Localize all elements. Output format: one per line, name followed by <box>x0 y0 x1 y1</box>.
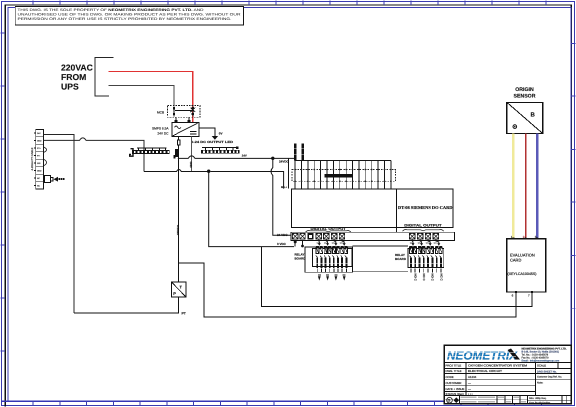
wire white break in contact bars (board2) <box>409 262 443 264</box>
svg-text:24VDC: 24VDC <box>279 160 290 164</box>
terminal strip output row <box>291 232 455 240</box>
wire MCB to SMPS stubs <box>176 117 189 122</box>
svg-text:GND: GND <box>37 170 42 173</box>
terminal block row TB2 (right) <box>201 146 247 157</box>
node eval pin ticks <box>512 238 538 293</box>
PLC U2 main box <box>291 189 453 228</box>
title block right column <box>536 362 572 384</box>
wire strip jumper arcs <box>44 147 47 166</box>
svg-text:SMPS 6.5A: SMPS 6.5A <box>152 126 169 130</box>
svg-text:DATE + ISSUE: DATE + ISSUE <box>446 387 465 391</box>
power supply SMPS U1 <box>152 122 199 136</box>
svg-text:NC C: NC C <box>422 274 426 282</box>
transmitter PT <box>172 282 187 315</box>
nodes DI strip contact dots <box>294 169 392 183</box>
svg-text:A1234: A1234 <box>468 375 477 379</box>
title block row values <box>468 364 528 396</box>
wire PLC L+ stub <box>288 158 290 188</box>
relay K6 <box>418 246 425 273</box>
svg-text:PROJ TITLE: PROJ TITLE <box>446 364 462 368</box>
node output pin labels group1 <box>317 242 344 245</box>
border black left edge extension <box>4 402 6 407</box>
wire link relay1 to relay2 <box>352 245 408 247</box>
svg-text:Q0.6: Q0.6 <box>426 242 430 245</box>
node strip label <box>325 174 353 177</box>
svg-text:0-24 DC OUTPUT LED: 0-24 DC OUTPUT LED <box>191 140 234 144</box>
svg-text:STATUS (Rev): STATUS (Rev) <box>446 392 464 396</box>
relay K2 <box>324 246 331 272</box>
sensor B1 origin sensor <box>507 87 543 134</box>
svg-text:220VAC: 220VAC <box>61 63 93 73</box>
svg-text:CUSTOMER: CUSTOMER <box>446 381 462 385</box>
svg-text:UNAUTHORISED USE OF THIS DWG.: UNAUTHORISED USE OF THIS DWG. OR MAKING … <box>18 13 242 17</box>
node junction dot relay strip 0V <box>294 240 297 243</box>
svg-text:—: — <box>468 381 471 385</box>
wire 220VAC neutral (dark) to MCB <box>109 85 175 105</box>
svg-text:GND: GND <box>189 162 193 168</box>
border tick marks bottom <box>33 401 541 406</box>
svg-text:OXYGEN CONCENTRATOR SYSTEM: OXYGEN CONCENTRATOR SYSTEM <box>468 364 528 368</box>
wire 24V rail from TB1 bar to PLC with hop over SMPS minus <box>178 156 295 159</box>
svg-text:Q0.3: Q0.3 <box>340 242 344 245</box>
terminal block row TB1 (left) <box>130 148 170 156</box>
wire 220VAC line (red) to MCB <box>109 72 193 123</box>
wire 0V rail to relay strip <box>261 246 294 248</box>
fuse F1 on PT supply wire <box>177 136 180 282</box>
wire PT bottom loop to field strip <box>74 297 179 313</box>
wires relay board1 output arrows <box>318 274 346 280</box>
wire stub circle2 to 0V rail <box>302 240 304 247</box>
wire 0V rail continue to PLC M <box>210 172 283 189</box>
node junction dot 24V rail <box>271 157 274 160</box>
wire divider stub to strip <box>395 228 397 233</box>
svg-text:DT-08 SIEMENS DO CARD: DT-08 SIEMENS DO CARD <box>398 205 453 210</box>
svg-text:Q0.7: Q0.7 <box>434 242 438 245</box>
relay K4 <box>341 246 348 272</box>
svg-text:ORIGIN: ORIGIN <box>515 87 534 93</box>
wires PLC outputs to relay coils group1 <box>319 239 344 244</box>
svg-text:24V: 24V <box>242 154 247 158</box>
wire terminal1 to left drop <box>44 135 74 313</box>
wire 0V to evaluation card pin7 <box>261 247 532 307</box>
relay K5 <box>410 246 417 273</box>
svg-text:MCB: MCB <box>157 110 164 114</box>
wire 0V drop to eval/relay rail <box>209 171 262 246</box>
wire white break in contact bars (board1) <box>314 262 352 264</box>
svg-text:THIS DWG. IS THE SOLE PROPERTY: THIS DWG. IS THE SOLE PROPERTY OF NEOMET… <box>18 8 205 12</box>
node 220VAC FROM UPS label <box>61 63 93 92</box>
border tick marks left <box>1 33 6 351</box>
wire SMPS to ground <box>199 128 215 136</box>
relay K3 <box>332 246 339 272</box>
relay K8 <box>435 246 442 273</box>
svg-text:NO C: NO C <box>431 274 435 282</box>
node relay board2 pin labels <box>414 274 444 282</box>
border tick marks right <box>571 43 576 308</box>
connector ribbon pin bar 2 <box>302 143 304 160</box>
title block bottom strip <box>444 396 571 405</box>
wires DI verticals with dots <box>295 161 391 190</box>
svg-text:• • •: • • • <box>468 392 473 396</box>
svg-text:DRG SHEET No.: DRG SHEET No. <box>537 370 557 373</box>
wire sensor red <box>525 134 527 239</box>
svg-text:NEOMETRIX: NEOMETRIX <box>447 351 518 363</box>
connector ribbon pin bar 1 <box>294 143 296 160</box>
border bottom blue heavy line <box>1 400 444 402</box>
notice box top-left <box>15 6 243 25</box>
svg-text:4-20mA PT CABLE: 4-20mA PT CABLE <box>31 147 34 170</box>
screw terminals group2 <box>409 233 439 239</box>
svg-text:ELECTRICAL CIRCUIT: ELECTRICAL CIRCUIT <box>468 369 502 373</box>
svg-text:UPS: UPS <box>61 82 79 92</box>
svg-text:SIG: SIG <box>37 162 41 165</box>
node output pin labels group2 <box>410 242 437 245</box>
relay board RB2 box <box>408 248 444 267</box>
svg-text:P: P <box>173 291 176 296</box>
relay board RB1 outer box <box>305 247 352 272</box>
svg-text:CODE: CODE <box>446 375 454 379</box>
svg-text:24 VDC: 24 VDC <box>277 233 288 237</box>
connector J1 field terminal strip (left) <box>34 129 44 189</box>
connector plug at terminal 7 <box>44 176 64 183</box>
terminal strip DI dashed box <box>292 170 395 182</box>
svg-text:B: B <box>531 112 536 119</box>
wire 0V rail (terminal2 net) with hop over PT wire <box>144 170 209 172</box>
svg-text:(XEYLCA10045S): (XEYLCA10045S) <box>508 272 537 276</box>
logo GO mark <box>447 397 459 403</box>
title block row labels <box>446 364 465 396</box>
svg-text:NEx. Utility Req.: NEx. Utility Req. <box>529 397 547 400</box>
svg-text:—: — <box>468 387 471 391</box>
title block company address <box>522 347 567 362</box>
title block row lines <box>444 362 571 395</box>
wires PLC outputs to relay coils group2 <box>412 239 439 244</box>
logo NEOMETRIX <box>447 349 520 363</box>
wire 24V vertical drop with hop over 0V rail <box>271 158 291 235</box>
svg-text:M L+: M L+ <box>281 186 287 189</box>
wire UPS source bracket <box>95 58 114 97</box>
ground symbol <box>212 136 218 140</box>
wire sensor yellow <box>512 134 515 239</box>
svg-text:BOARD: BOARD <box>395 257 407 261</box>
node junction dot 0V rail <box>207 170 210 173</box>
wire PT signal branch to evaluation card pin6 <box>179 263 517 317</box>
svg-text:NO C: NO C <box>414 274 418 282</box>
svg-text:BOARD: BOARD <box>295 256 307 260</box>
title block <box>444 345 571 404</box>
wire terminal2 rail with hop <box>44 138 144 172</box>
wire SMPS minus down to 0V rail <box>191 136 193 171</box>
svg-text:4-20mA: 4-20mA <box>176 225 180 235</box>
svg-text:PERMISSION OR ANY OTHER USE IS: PERMISSION OR ANY OTHER USE IS STRICTLY … <box>18 17 232 21</box>
PLC divider <box>395 189 397 228</box>
terminal block end stop (right bar) <box>174 149 178 159</box>
title block logo row divider <box>444 361 571 363</box>
svg-text:24V DC: 24V DC <box>157 131 169 135</box>
svg-text:G: G <box>448 399 451 403</box>
svg-text:Note:: Note: <box>537 382 543 385</box>
svg-text:CARD: CARD <box>510 258 521 263</box>
relay board RB1 inner box <box>313 248 352 266</box>
svg-text:Xxxx.Px.xPxXxxPxx: Xxxx.Px.xPxXxxPxx <box>529 401 551 404</box>
svg-text:SCALE: SCALE <box>537 364 546 368</box>
svg-text:Email : info@neometrixgroup.: Email : info@neometrixgroup.com <box>522 359 560 362</box>
border tick marks top <box>33 1 546 6</box>
relay K1 <box>316 246 323 272</box>
breaker MCB <box>157 105 200 117</box>
evaluation card U3 <box>507 239 546 292</box>
svg-text:Customer Drg./Ref. No.: Customer Drg./Ref. No. <box>537 376 562 379</box>
node DIGITAL OUTPUT label group2 <box>403 224 444 232</box>
svg-text:0 VDC: 0 VDC <box>277 242 287 246</box>
svg-text:SENSOR: SENSOR <box>514 93 536 99</box>
node DIGITAL OUTPUT label group1 <box>306 227 351 232</box>
wire stub strip to 0V rail <box>294 241 296 247</box>
wire sensor blue <box>536 134 538 239</box>
bus 24V distribution top <box>295 160 391 162</box>
svg-text:PT-: PT- <box>37 155 40 158</box>
svg-text:0V: 0V <box>219 132 223 136</box>
wire relay boards common bottom <box>352 270 408 272</box>
svg-text:GND: GND <box>37 140 42 143</box>
screw terminals group1 <box>292 233 345 239</box>
svg-text:NC C: NC C <box>439 274 443 282</box>
svg-text:FROM: FROM <box>61 72 86 82</box>
svg-text:DWG. TITLE: DWG. TITLE <box>446 369 462 373</box>
svg-text:DIGITAL OUTPUT: DIGITAL OUTPUT <box>404 224 442 228</box>
relay K7 <box>427 246 434 273</box>
